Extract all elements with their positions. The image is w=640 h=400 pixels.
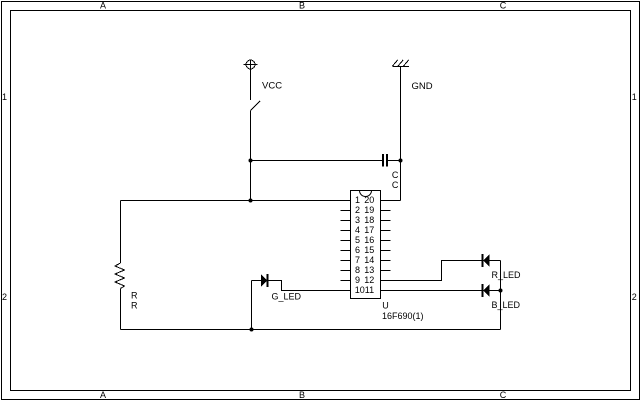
svg-text:B_LED: B_LED <box>492 300 521 310</box>
wire VCC stem lower <box>250 111 252 201</box>
junction node G_LED riser/bottom rail <box>250 328 254 332</box>
svg-text:20: 20 <box>364 195 374 205</box>
svg-text:2: 2 <box>355 205 360 215</box>
svg-text:6: 6 <box>355 245 360 255</box>
svg-text:C: C <box>500 390 507 400</box>
wire pin11 to B_LED <box>381 290 482 292</box>
svg-text:B: B <box>299 1 305 11</box>
svg-text:3: 3 <box>355 215 360 225</box>
wire capacitor left <box>251 160 383 162</box>
wire G_LED riser <box>251 281 253 330</box>
wire GND stem <box>400 67 402 201</box>
wire right rail <box>500 261 502 330</box>
svg-text:16: 16 <box>364 235 374 245</box>
LED G_LED <box>261 274 269 287</box>
svg-text:18: 18 <box>364 215 374 225</box>
switch open contact (diagonal) <box>251 101 261 111</box>
junction node VCC/cap <box>249 159 253 163</box>
svg-text:15: 15 <box>364 245 374 255</box>
svg-text:R: R <box>131 300 138 310</box>
svg-text:16F690(1): 16F690(1) <box>382 311 424 321</box>
svg-text:5: 5 <box>355 235 360 245</box>
IC notch <box>360 191 372 197</box>
resistor R zigzag <box>115 263 125 289</box>
wire left branch upper <box>120 201 122 264</box>
svg-text:8: 8 <box>355 265 360 275</box>
svg-text:14: 14 <box>364 255 374 265</box>
svg-text:1: 1 <box>355 195 360 205</box>
svg-text:2: 2 <box>2 292 7 302</box>
IC U body <box>351 191 381 299</box>
wire pin20 link <box>381 200 401 202</box>
svg-text:A: A <box>100 390 106 400</box>
pin stubs right pins 19-13 <box>381 211 391 271</box>
svg-text:1: 1 <box>2 92 7 102</box>
svg-text:12: 12 <box>364 275 374 285</box>
wire R_LED anode <box>490 260 501 262</box>
svg-text:GND: GND <box>412 81 433 92</box>
svg-text:U: U <box>382 301 389 311</box>
ground symbol <box>393 60 410 67</box>
svg-text:11: 11 <box>365 285 374 295</box>
wire left branch lower <box>120 289 122 330</box>
junction node cap/GND <box>399 159 403 163</box>
svg-text:C: C <box>392 170 399 180</box>
junction node VCC/pin1 wire <box>249 199 253 203</box>
svg-text:G_LED: G_LED <box>272 292 302 302</box>
svg-text:13: 13 <box>364 265 374 275</box>
power symbol VCC circle with cross <box>244 60 258 69</box>
svg-text:A: A <box>100 1 106 11</box>
svg-text:19: 19 <box>364 205 374 215</box>
wire B_LED anode <box>490 290 501 292</box>
wire bottom rail <box>121 329 501 331</box>
svg-text:C: C <box>500 1 507 11</box>
svg-text:4: 4 <box>355 225 360 235</box>
svg-text:17: 17 <box>364 225 374 235</box>
svg-text:9: 9 <box>355 275 360 285</box>
LED B_LED <box>482 284 490 297</box>
svg-text:C: C <box>392 180 399 190</box>
junction node B_LED/right rail <box>499 289 503 293</box>
wire top horizontal to pin 1 <box>121 200 351 202</box>
pin stubs left pins 2-9 <box>341 211 351 281</box>
wire G_LED cathode step <box>269 281 351 291</box>
svg-text:10: 10 <box>355 285 365 295</box>
svg-text:R: R <box>131 290 138 300</box>
svg-text:VCC: VCC <box>262 81 282 92</box>
svg-text:7: 7 <box>355 255 360 265</box>
wire capacitor right <box>388 160 401 162</box>
wire G_LED anode <box>252 280 262 282</box>
svg-text:B: B <box>299 390 305 400</box>
wire VCC stem upper <box>250 69 252 100</box>
wire pin12 to R_LED <box>381 261 482 281</box>
svg-text:R_LED: R_LED <box>492 270 522 280</box>
svg-text:1: 1 <box>632 92 637 102</box>
svg-text:2: 2 <box>632 292 637 302</box>
LED R_LED <box>482 254 490 267</box>
capacitor C plates <box>382 154 388 167</box>
